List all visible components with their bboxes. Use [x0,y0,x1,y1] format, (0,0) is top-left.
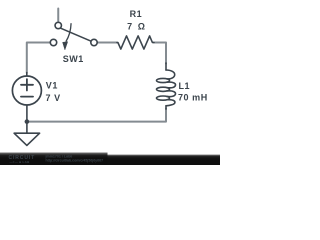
svg-text:R1: R1 [130,9,143,19]
svg-text:7 V: 7 V [46,93,61,103]
svg-text:7 Ω: 7 Ω [127,21,145,31]
svg-text:http://circuitlab.com/c/45j56j: http://circuitlab.com/c/45j56j6y667 [46,159,104,163]
svg-text:V1: V1 [46,80,58,90]
svg-text:L1: L1 [179,81,191,91]
svg-text:70 mH: 70 mH [178,93,208,103]
svg-text:—≡— ■ LAB: —≡— ■ LAB [10,160,31,164]
svg-text:SW1: SW1 [63,54,84,64]
